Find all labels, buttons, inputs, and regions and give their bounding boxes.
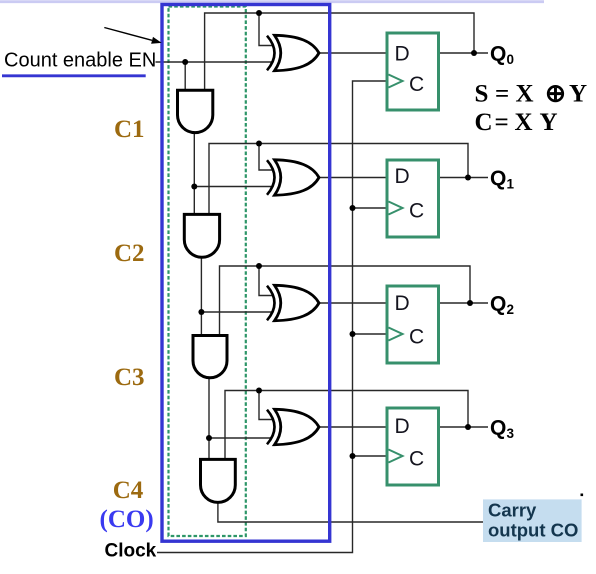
node: Q3 output junction xyxy=(465,424,471,430)
svg-text:D: D xyxy=(395,42,410,65)
wire: carry output CO run from AND4 xyxy=(218,502,483,522)
svg-text:C2: C2 xyxy=(114,240,145,267)
wire: clock stub to FF3 C xyxy=(353,333,388,335)
svg-text:C: C xyxy=(409,325,424,348)
wire: FF2 Q output to Q1 label xyxy=(439,177,488,179)
stray period mark xyxy=(581,494,584,497)
node: C1 junction to XOR2 xyxy=(191,184,197,190)
flip-flop FF3 xyxy=(387,286,439,363)
svg-text:D: D xyxy=(395,165,410,188)
wire: clock stub to FF2 C xyxy=(353,207,388,209)
label Q3 xyxy=(490,417,515,441)
wire: XOR2 output to FF2 D xyxy=(319,177,387,179)
and gate A1 (C1) xyxy=(178,90,213,132)
wire: FF1 Q output to Q0 label xyxy=(439,52,488,54)
and gate A3 (C3) xyxy=(193,336,227,378)
svg-text:C: C xyxy=(409,73,424,96)
xor gate X1 xyxy=(267,35,319,70)
wire: C1 stub to XOR2 lower input xyxy=(194,186,272,188)
label Q1 xyxy=(490,167,515,191)
wire: Q2 feedback drop to XOR3 upper input xyxy=(259,266,272,296)
svg-text:D: D xyxy=(395,292,410,315)
arrow to EN input xyxy=(104,28,161,44)
svg-text:C: C xyxy=(409,199,424,222)
svg-text:2: 2 xyxy=(507,302,515,317)
wire: C2 line (AND2 out down to AND3 left input) xyxy=(200,257,202,335)
svg-text:output CO: output CO xyxy=(488,520,578,541)
green dotted box (counter cell group) xyxy=(169,7,246,537)
svg-text:0: 0 xyxy=(507,52,515,67)
node: Q0 output junction xyxy=(471,50,477,56)
node: C2 junction to XOR3 xyxy=(198,309,204,315)
wire: Q1 feedback loop xyxy=(209,144,468,215)
wire: EN input line to XOR1 lower input xyxy=(156,61,273,63)
wire: clock distribution line xyxy=(157,81,387,553)
svg-text:C4: C4 xyxy=(113,477,144,504)
label Q0 xyxy=(490,43,514,67)
node: Q3 feedback junction to XOR4 xyxy=(256,388,262,394)
svg-text:C: C xyxy=(409,447,424,470)
svg-text:C1: C1 xyxy=(114,116,145,143)
wire: XOR1 output to FF1 D xyxy=(319,52,387,54)
flip-flop FF4 xyxy=(387,408,439,485)
node: Q2 feedback junction to XOR3 xyxy=(256,263,262,269)
wire: EN drop to AND1 left input xyxy=(184,62,186,90)
and gate A2 (C2) xyxy=(184,214,219,257)
wire: Q1 feedback drop to XOR2 upper input xyxy=(259,144,272,171)
wire: XOR3 output to FF3 D xyxy=(319,302,387,304)
svg-text:Clock: Clock xyxy=(105,541,157,562)
xor gate X2 xyxy=(267,160,319,195)
svg-text:Q: Q xyxy=(490,293,506,316)
node: clock junction FF3 xyxy=(350,331,356,337)
wire: Q0 feedback loop (AND1 right input, top run, down to Q0 node) xyxy=(205,13,474,90)
wire: C2 stub to XOR3 lower input xyxy=(201,311,272,313)
wire: FF4 Q output to Q3 label xyxy=(439,426,488,428)
wire: C1 line (AND1 out down to AND2 left input) xyxy=(193,133,195,215)
carry output CO highlight box xyxy=(483,499,582,542)
node: Q0 feedback junction to XOR1 xyxy=(256,10,262,16)
wire: FF3 Q output to Q2 label xyxy=(439,302,488,304)
node: Q1 output junction xyxy=(465,175,471,181)
flip-flop FF2 xyxy=(387,160,439,237)
top lavender rule xyxy=(0,0,544,3)
node: clock junction FF4 xyxy=(350,453,356,459)
wire: C3 stub to XOR4 lower input xyxy=(209,437,272,439)
node: EN junction at AND1 input xyxy=(182,59,188,65)
blue register outline box xyxy=(162,5,330,542)
svg-text:D: D xyxy=(395,415,410,438)
svg-text:1: 1 xyxy=(507,177,515,192)
label Q2 xyxy=(490,293,514,317)
wire: Q0 feedback drop to XOR1 upper input xyxy=(259,13,272,46)
wire: Q3 feedback drop to XOR4 upper input xyxy=(259,391,272,420)
wire: Q2 feedback loop xyxy=(220,266,471,336)
node: Q1 feedback junction to XOR2 xyxy=(256,141,262,147)
svg-text:Count enable EN: Count enable EN xyxy=(4,50,156,72)
node: Q2 output junction xyxy=(467,300,473,306)
svg-text:Carry: Carry xyxy=(488,500,537,521)
svg-text:3: 3 xyxy=(507,426,515,441)
underline under Count enable EN xyxy=(2,74,146,77)
xor gate X3 xyxy=(267,285,319,320)
xor gate X4 xyxy=(267,409,319,444)
svg-text:Q: Q xyxy=(490,167,506,190)
svg-text:C3: C3 xyxy=(114,364,145,391)
svg-text:C=XY: C=XY xyxy=(475,109,558,136)
wire: XOR4 output to FF4 D xyxy=(319,426,387,428)
node: clock junction FF2 xyxy=(350,205,356,211)
wire: C3 line (AND3 out down to AND4 left input) xyxy=(208,378,210,460)
and gate A4 (C4 / CO) xyxy=(201,459,236,502)
node: C3 junction to XOR4 xyxy=(206,435,212,441)
svg-text:(CO): (CO) xyxy=(100,506,154,533)
svg-text:Q: Q xyxy=(490,417,506,440)
wire: clock stub to FF4 C xyxy=(353,455,388,457)
wire: Q3 feedback loop xyxy=(225,391,468,460)
flip-flop FF1 xyxy=(387,33,439,110)
svg-text:Q: Q xyxy=(490,43,506,66)
